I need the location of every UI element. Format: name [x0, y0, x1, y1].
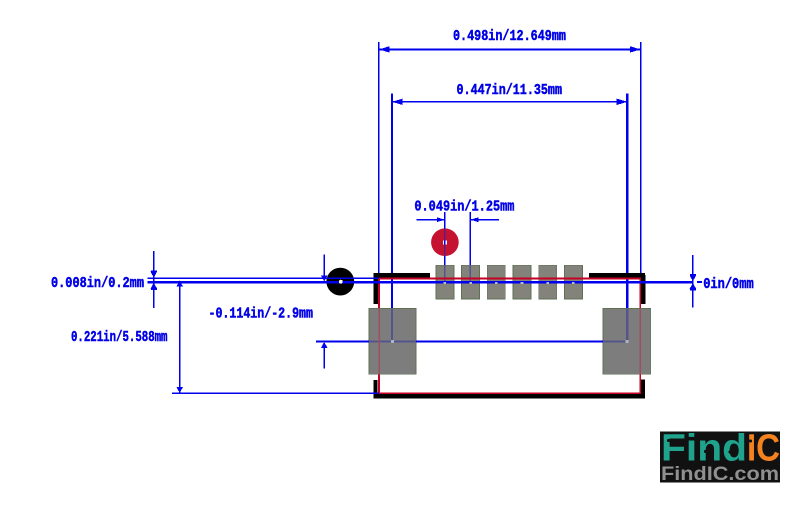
- mounting pad left (big): [369, 308, 416, 374]
- svg-text:0.498in/12.649mm: 0.498in/12.649mm: [453, 28, 566, 45]
- extension line x=627 (11.35mm right, to pad center): [626, 94, 628, 309]
- pad P1: [436, 265, 454, 299]
- dimension D2 right arrow: [617, 99, 628, 105]
- origin white center dot: [339, 280, 343, 284]
- svg-text:0in/0mm: 0in/0mm: [703, 276, 754, 293]
- dimension D3 right tail line: [470, 219, 499, 220]
- pad number mark P4: [521, 282, 524, 284]
- pad center line muted through left big pad: [369, 340, 416, 342]
- muted extension line through pad P2: [470, 265, 472, 282]
- svg-text:0.447in/11.35mm: 0.447in/11.35mm: [457, 82, 563, 99]
- dimension D7 bottom extension line: [172, 392, 379, 394]
- component courtyard red outline: [379, 278, 640, 393]
- muted extension x=392 through left big pad: [391, 308, 393, 341]
- pad center mark left big pad: [391, 340, 394, 343]
- pad P4: [513, 265, 531, 299]
- muted red outline left edge through left big pad: [378, 308, 380, 374]
- dimension D4 lower arrow: [151, 283, 158, 289]
- muted red outline right edge through right big pad: [640, 308, 642, 374]
- dimension D5 upper arrow: [690, 275, 697, 281]
- muted extension line through pad P1: [444, 265, 446, 282]
- svg-text:-0.114in/-2.9mm: -0.114in/-2.9mm: [209, 305, 314, 322]
- extension line x=445 (1.25mm left, through pad 1): [444, 212, 446, 265]
- component body black outline bottom-right corner segment: [641, 380, 645, 399]
- pin-1 marker red circle: [431, 228, 459, 256]
- FindIC logo: [660, 428, 780, 486]
- pad center line muted through right big pad: [603, 340, 627, 342]
- pad number mark P6: [572, 282, 575, 284]
- svg-text:0.008in/0.2mm: 0.008in/0.2mm: [51, 275, 144, 292]
- dimension D7 top arrow: [176, 281, 183, 287]
- dimension D1 left arrow: [379, 46, 390, 52]
- component body black outline right upper segment: [641, 275, 645, 304]
- dimension D5 0mm marker vertical: [692, 255, 694, 308]
- dimension D6 upper arrow: [321, 275, 328, 281]
- dimension D7 bottom arrow: [176, 387, 183, 393]
- svg-text:FindIC.com: FindIC.com: [661, 464, 779, 485]
- dimension D4 upper arrow: [151, 272, 158, 278]
- extension line x=379 (12.649mm left): [378, 42, 380, 278]
- pad P6: [564, 265, 582, 299]
- dimension D2 left arrow: [392, 99, 403, 105]
- pad number mark P3: [495, 282, 498, 284]
- component body black outline top-left segment: [374, 273, 430, 278]
- mounting pad right (big): [603, 308, 651, 374]
- center line y=282: [148, 281, 693, 284]
- pad number mark P2: [469, 282, 472, 284]
- dimension D2 11.35mm line: [392, 101, 627, 103]
- svg-text:0.221in/5.588mm: 0.221in/5.588mm: [71, 329, 168, 346]
- pad P3: [487, 265, 505, 299]
- pad center line y=341 left bright segment: [316, 340, 369, 342]
- component body black outline bottom segment: [374, 394, 645, 398]
- dimension D4 0.2mm marker vertical: [153, 251, 155, 308]
- dimension D6 lower line: [323, 348, 325, 369]
- pad number mark P5: [546, 282, 549, 284]
- pin-1 white center dot: [443, 240, 447, 244]
- origin marker black circle: [326, 268, 354, 296]
- center line dash right of 0mm marker: [697, 281, 702, 283]
- extension line x=640.5 (12.649mm right): [640, 42, 641, 282]
- dimension D5 lower arrow: [690, 283, 697, 289]
- offset reference line y=278: [148, 277, 379, 279]
- dimension D1 12.649mm line: [379, 49, 641, 51]
- dimension D7 5.588mm vertical: [179, 281, 181, 393]
- muted extension x=627 through right big pad: [626, 308, 628, 341]
- pad number mark P1: [444, 282, 447, 284]
- extension line blended over pin-1 circle upper: [444, 229, 446, 241]
- dimension D6 lower arrow: [321, 342, 328, 348]
- component body black outline left upper segment: [374, 273, 379, 304]
- svg-text:0.049in/1.25mm: 0.049in/1.25mm: [414, 198, 514, 215]
- dimension D6 -2.9mm upper line: [323, 254, 325, 275]
- pad P5: [539, 265, 557, 299]
- pad P2: [462, 265, 480, 299]
- pad center line y=341 middle bright segment: [416, 340, 603, 342]
- dimension D3 left arrow: [437, 217, 445, 222]
- dimension D1 right arrow: [630, 46, 641, 52]
- pad center mark right big pad: [625, 340, 628, 343]
- dimension D3 1.25mm left tail line: [417, 219, 445, 220]
- extension line x=392 (11.35mm left, to pad center): [391, 94, 393, 309]
- dimension D3 right arrow: [470, 217, 478, 222]
- extension line x=470 (1.25mm right, through pad 2): [470, 212, 472, 265]
- extension line blended over pin-1 circle lower: [444, 245, 446, 256]
- component body black outline top-right segment: [589, 273, 645, 278]
- component body black outline bottom-left corner segment: [373, 380, 377, 394]
